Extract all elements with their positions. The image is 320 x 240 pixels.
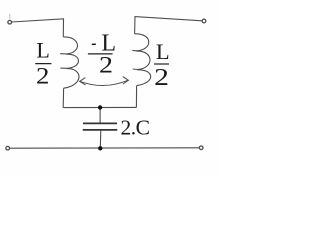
svg-text:L: L — [156, 39, 170, 64]
svg-text:2.C: 2.C — [121, 116, 150, 140]
svg-text:2: 2 — [154, 64, 169, 91]
svg-text:2: 2 — [36, 63, 49, 89]
svg-text:2: 2 — [99, 52, 113, 78]
svg-text:L: L — [36, 37, 49, 62]
